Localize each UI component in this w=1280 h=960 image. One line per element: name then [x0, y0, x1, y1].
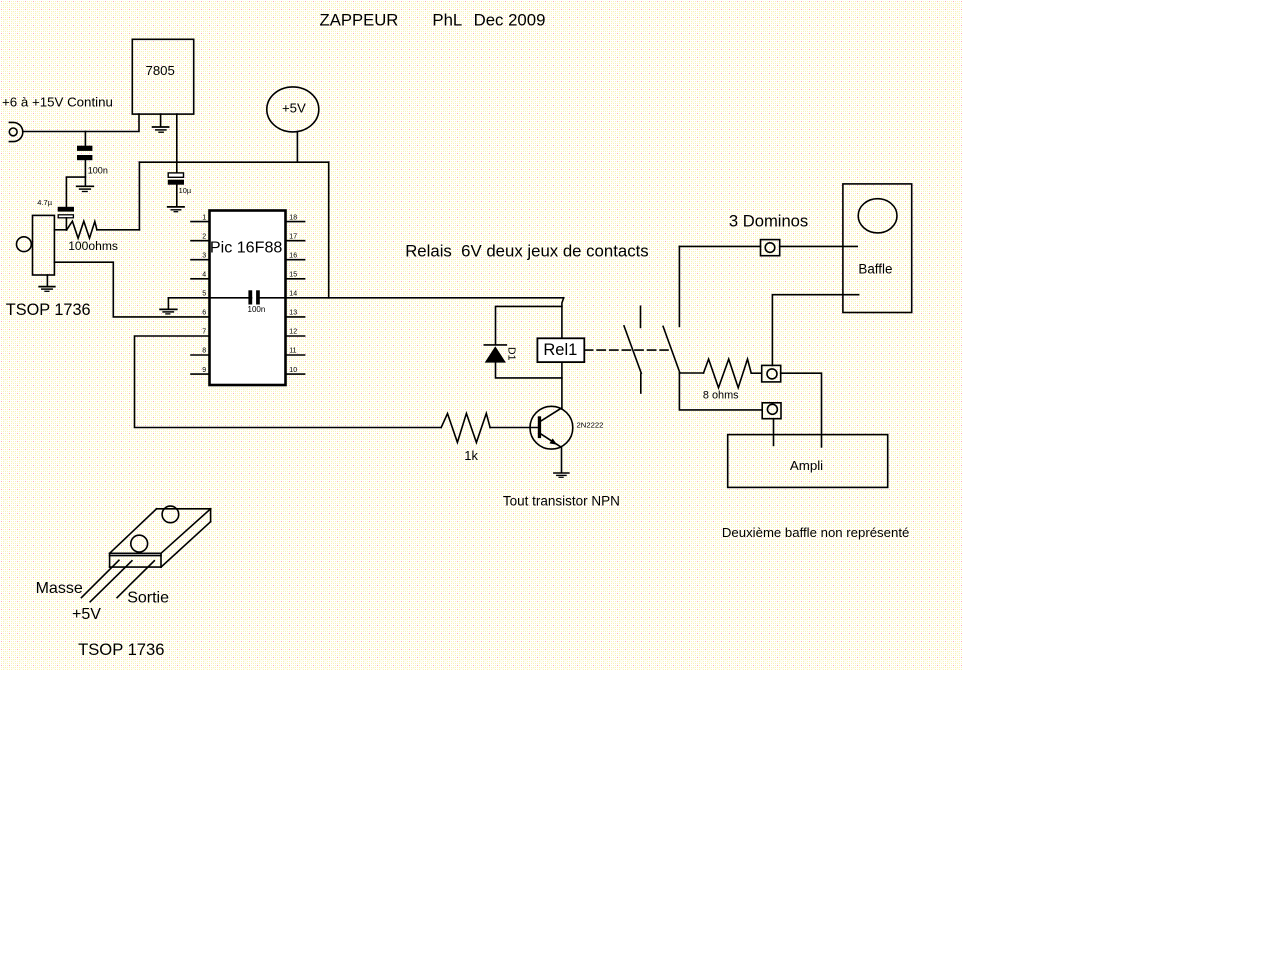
grid background: [0, 0, 963, 670]
wire R1 to bus corner: [97, 229, 139, 231]
svg-text:3 Dominos: 3 Dominos: [729, 211, 808, 230]
wire baffle second terminal to domino2: [772, 295, 858, 366]
svg-text:5: 5: [202, 291, 206, 298]
svg-text:Baffle: Baffle: [858, 262, 892, 277]
svg-text:8: 8: [202, 348, 206, 355]
pin numbers left 1-9: [202, 214, 206, 373]
wire branch to C2: [66, 177, 85, 207]
capacitor C2 4.7µ plates: [58, 207, 74, 212]
svg-text:D1: D1: [505, 347, 517, 361]
svg-text:Sortie: Sortie: [127, 589, 169, 606]
svg-text:10: 10: [289, 367, 297, 374]
wire domino3 to ampli: [773, 419, 775, 446]
wire +5V bus horizontal: [139, 161, 328, 163]
TSOP 3D hole 2: [131, 535, 148, 552]
relay K1 Rel1 box: [537, 338, 584, 362]
ground under Q1: [554, 473, 569, 477]
TSOP 3D hole 1: [162, 506, 179, 523]
wire 7805 pin3 down to 10u: [176, 114, 178, 173]
ground under TSOP: [39, 275, 55, 291]
svg-text:TSOP 1736: TSOP 1736: [6, 301, 91, 319]
domino connector TB1: [761, 240, 780, 256]
Q1 collector diagonal: [541, 408, 562, 421]
transistor Q1 circle: [530, 406, 573, 449]
pin numbers right 18-10: [289, 214, 297, 373]
wire TSOP vcc to R1: [54, 229, 66, 231]
domino connector TB3: [762, 403, 781, 419]
svg-text:Deuxième baffle non représenté: Deuxième baffle non représenté: [722, 525, 909, 540]
TSOP lens circle: [17, 237, 32, 252]
capacitor C4 10u plates: [168, 173, 183, 177]
wire TSOP output to pin6: [54, 262, 209, 317]
svg-text:16: 16: [289, 252, 297, 259]
connector J1 input jack: [9, 122, 23, 141]
wire pin5 line through chip to relay: [168, 297, 251, 299]
svg-text:18: 18: [289, 214, 297, 221]
svg-text:2N2222: 2N2222: [577, 420, 604, 429]
wire +5V stem to bus: [296, 132, 298, 163]
wire C1 to ground: [84, 160, 86, 186]
svg-text:3: 3: [202, 252, 206, 259]
resistor R2 1k zigzag: [441, 413, 490, 442]
svg-text:Relais 6V deux jeux de contac: Relais 6V deux jeux de contacts: [405, 242, 648, 261]
wire domino1 to baffle: [780, 245, 858, 247]
diode D1 loop wires: [496, 306, 562, 344]
regulator U1 7805 box: [132, 39, 193, 114]
svg-text:Masse: Masse: [36, 580, 83, 597]
Q1 emitter arrow: [550, 438, 558, 444]
wire input node down to C1: [84, 132, 86, 146]
svg-text:Pic 16F88: Pic 16F88: [210, 238, 283, 256]
svg-text:10µ: 10µ: [179, 186, 192, 195]
svg-text:17: 17: [289, 233, 297, 240]
wire R3 to domino2: [751, 372, 762, 374]
wire C2 to resistor node: [65, 218, 67, 230]
TSOP pin Sortie: [117, 561, 154, 598]
wire input to 7805 pin1: [23, 114, 139, 131]
wire S2 top to domino1: [679, 245, 760, 247]
Q1 emitter diagonal: [541, 434, 561, 447]
svg-text:Tout transistor NPN: Tout transistor NPN: [503, 494, 620, 509]
wire R2 to base: [490, 427, 538, 429]
wire domino1 down to S2: [678, 246, 680, 326]
wire emitter to ground: [561, 448, 563, 473]
TSOP pin +5V: [90, 561, 132, 602]
svg-text:13: 13: [289, 310, 297, 317]
svg-text:ZAPPEUR: ZAPPEUR: [320, 11, 399, 30]
svg-text:100n: 100n: [88, 166, 108, 176]
switch S1 blade: [624, 326, 641, 373]
switch S1 bottom stub: [640, 374, 642, 393]
svg-text:1: 1: [202, 214, 206, 221]
capacitor C3 100n plates inside chip: [248, 290, 252, 304]
resistor R1 100ohms zigzag: [67, 221, 97, 238]
svg-text:4: 4: [202, 272, 206, 279]
svg-text:12: 12: [289, 329, 297, 336]
svg-text:Rel1: Rel1: [543, 341, 577, 359]
svg-text:+5V: +5V: [282, 101, 306, 116]
svg-text:7805: 7805: [146, 63, 175, 78]
svg-text:6: 6: [202, 310, 206, 317]
U2 pin stubs right: [287, 222, 305, 375]
switch S1 top stub: [640, 306, 642, 327]
wire relay coil vertical: [562, 298, 564, 408]
svg-text:TSOP 1736: TSOP 1736: [78, 640, 164, 659]
switch S2 blade: [663, 326, 680, 373]
U2 pin stubs left: [191, 222, 210, 375]
svg-text:PhL: PhL: [432, 11, 462, 30]
ground under 10u: [168, 207, 184, 212]
power symbol +5V: [267, 87, 319, 132]
svg-text:Dec 2009: Dec 2009: [474, 11, 546, 30]
svg-text:100ohms: 100ohms: [68, 239, 118, 253]
ground under 7805: [153, 114, 169, 132]
svg-text:+6 à +15V Continu: +6 à +15V Continu: [2, 95, 113, 110]
svg-text:1k: 1k: [464, 448, 478, 463]
IR receiver TSOP body: [33, 215, 55, 275]
wire S2 to R3: [679, 372, 703, 374]
svg-text:14: 14: [289, 291, 297, 298]
microcontroller U2 Pic 16F88 body: [210, 211, 286, 386]
capacitor C1 100n plates: [77, 146, 92, 151]
diode D1 triangle: [485, 346, 506, 362]
svg-text:Ampli: Ampli: [790, 458, 823, 473]
ground under C1: [77, 186, 94, 191]
wire bus left end down to resistor: [138, 162, 140, 230]
svg-text:15: 15: [289, 272, 297, 279]
TSOP pin Masse: [81, 560, 119, 597]
TSOP 3D package top face: [110, 509, 211, 567]
wire pin7 down to base resistor: [135, 336, 442, 428]
dashed actuation line: [585, 349, 669, 351]
amplifier box Ampli: [728, 435, 888, 488]
svg-text:+5V: +5V: [72, 606, 101, 623]
domino connector TB2: [762, 365, 781, 382]
ground at pin5: [160, 298, 177, 314]
svg-text:9: 9: [202, 367, 206, 374]
diode D1 cathode bar: [484, 344, 506, 346]
svg-text:8 ohms: 8 ohms: [703, 390, 739, 402]
svg-text:4.7µ: 4.7µ: [37, 198, 52, 207]
wire 10u to ground: [176, 185, 178, 207]
wire domino2 to ampli: [781, 373, 822, 447]
svg-text:11: 11: [289, 348, 296, 355]
resistor R3 8 ohms zigzag: [704, 359, 752, 388]
speaker box Baffle: [843, 184, 912, 313]
svg-text:2: 2: [202, 233, 206, 240]
speaker cone circle: [858, 199, 897, 233]
wire bus right end down to pin14 line: [328, 162, 330, 298]
svg-text:7: 7: [202, 329, 206, 336]
Q1 base bar: [538, 416, 541, 438]
svg-text:100n: 100n: [248, 305, 266, 314]
wire junction down to domino3: [679, 373, 762, 410]
